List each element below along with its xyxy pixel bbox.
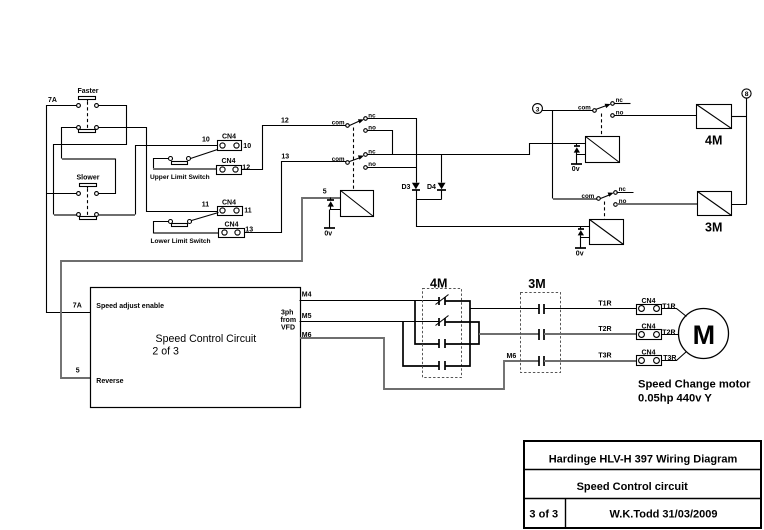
svg-text:CN4: CN4 [222,158,236,165]
svg-text:com: com [332,156,345,163]
wire: 7A rail (Faster NO left, Slower NO left, box 7A input) [47,106,91,313]
svg-text:T3R: T3R [663,355,676,362]
diode flyback across 3M-pilot coil [581,227,590,238]
wire 13: CN4 pin13 to relay com (lower) [245,162,346,233]
svg-text:0v: 0v [572,166,580,173]
svg-text:M5: M5 [302,313,312,320]
wire: CN4 T2R to motor [662,334,679,336]
pushbutton Faster NO contact circles [77,104,81,108]
wire: net 5 from coil to Reverse input of speed control box [61,198,340,378]
svg-text:2 of 3: 2 of 3 [152,346,179,358]
relay 3M-pilot changeover: nc circle, stub, label [614,191,618,195]
svg-text:Hardinge HLV-H 397 Wiring Diag: Hardinge HLV-H 397 Wiring Diagram [549,453,738,465]
ground 0v for RL5 [329,210,331,228]
motor M body [679,309,729,359]
relay 4M-pilot mechanical link (dashed) [601,114,603,137]
contactor 4M NC contact 2 [439,318,445,326]
connector CN4 pin10 body [218,141,242,151]
relay 3M-pilot mechanical link (dashed) [604,202,606,220]
contactor 4M NC contact 1 [439,297,445,305]
contactor 3M NO contact 2 [539,329,544,340]
wire: drop to Slower NO right [99,159,116,194]
wire: CN4 T3R to motor [662,352,687,361]
relay 4M-pilot changeover: no circle and label [611,114,615,118]
relay RL5 changeover contact 12: com circle [346,124,350,128]
wire: no to contactor coil 4M [615,115,697,117]
svg-text:CN4: CN4 [222,199,236,206]
relay RL5 changeover contact 12: nc circle and label [364,117,368,121]
svg-text:4M: 4M [705,134,722,148]
connector CN4 pin T1R body [637,305,662,315]
connector CN4 pin T3R body [637,356,662,366]
contactor 4M NO contact 3 [439,339,445,348]
diode flyback across 4M-pilot coil [577,144,586,155]
diode flyback across RL5 coil [331,198,341,210]
svg-text:0v: 0v [324,230,332,237]
wire: Slower NC left horizontal [54,214,77,216]
pushbutton Slower NO contact circles [77,192,81,196]
svg-text:Speed Control Circuit: Speed Control Circuit [156,333,257,345]
title block outer frame [524,441,761,528]
relay 3M-pilot changeover: arm + arrowhead [601,195,611,199]
svg-text:3 of 3: 3 of 3 [529,509,558,521]
wire: T2R from 4M to 3M contact 2 (grey) [479,333,539,335]
svg-text:3M: 3M [528,277,545,291]
relay 4M-pilot changeover: nc circle, stub, label [611,102,615,106]
relay RL5 changeover contact 12: no circle and label [364,129,368,133]
wire: D4 branch from nc(13) net [441,155,443,183]
node terminal 8 [742,89,751,98]
relay coil 3M-pilot body [590,220,624,245]
wire: upper limit left lead [154,159,169,169]
svg-text:11: 11 [244,208,252,215]
svg-text:D3: D3 [402,184,411,191]
svg-text:7A: 7A [73,302,82,309]
wire: upper limit right diagonal to CN4 pin10 [191,150,218,159]
svg-text:M: M [693,320,716,350]
svg-text:T2R: T2R [662,329,675,336]
wire: 4M output join NC1+NO4 (T1R side) [445,301,470,366]
connector CN4 pin11 body [218,207,243,216]
svg-text:Speed adjust enable: Speed adjust enable [96,303,164,310]
svg-text:11: 11 [202,202,210,209]
svg-text:W.K.Todd 31/03/2009: W.K.Todd 31/03/2009 [609,509,717,521]
svg-text:Speed Control circuit: Speed Control circuit [577,481,689,493]
svg-text:CN4: CN4 [222,134,236,141]
svg-text:12: 12 [281,117,289,124]
title block cell divider [565,499,567,529]
wire: lower limit to CN4 pin13 (grey) [154,232,219,234]
svg-text:VFD: VFD [281,324,295,331]
wire: T3R from 3M to connector CN4 (grey) [544,360,636,362]
wire: 4M coil to terminal 8 rail [732,116,747,118]
switch Lower Limit: contact circles [169,220,173,224]
svg-text:Reverse: Reverse [96,378,123,385]
svg-text:3M: 3M [705,221,722,235]
svg-text:8: 8 [745,91,749,98]
wire: CN4 T1R to motor [662,309,687,317]
wire: no to contactor coil 3M (grey) [617,203,698,205]
wire: lower limit right diagonal to CN4 pin11 [192,213,219,221]
wire: upper limit to CN4 pin12 (grey) [153,168,217,170]
wire: T1R from 4M to 3M contact 1 [471,308,539,310]
svg-text:nc: nc [619,186,627,193]
wire M4: box to 4M NC contact 1 [300,300,439,302]
wire: terminal 8 rail [732,98,747,205]
relay RL5 changeover contact 13: moving arm + arrowhead [350,158,361,162]
wire: Faster NO right to Slower NC left [54,106,127,215]
svg-text:7A: 7A [48,97,57,104]
relay RL5 changeover contact 13: com circle [346,161,350,165]
relay 4M-pilot changeover: arm + arrowhead [596,106,607,110]
svg-text:CN4: CN4 [225,222,239,229]
svg-text:Faster: Faster [78,88,99,95]
contactor 4M contact block dashed outline [423,289,462,378]
svg-text:10: 10 [243,143,251,150]
connector CN4 pin12 body [217,166,242,175]
svg-text:3ph: 3ph [281,310,293,317]
svg-text:Speed Change motor: Speed Change motor [638,379,751,391]
svg-text:T3R: T3R [598,352,611,359]
pushbutton Slower mechanical link (dashed) [87,187,89,189]
wire: T1R from 3M to connector CN4 [545,308,637,310]
svg-text:nc: nc [616,97,624,104]
relay 3M-pilot changeover: no circle and label [614,203,618,207]
svg-text:0v: 0v [576,251,584,258]
wire 12: CN4 pin12 to relay com (upper) [242,126,346,170]
svg-text:M6: M6 [507,353,517,360]
svg-text:from: from [281,317,297,324]
svg-text:com: com [578,104,591,111]
pushbutton Faster actuator bar [79,97,96,100]
switch Upper Limit: contact circles [169,157,173,161]
svg-text:5: 5 [323,189,327,196]
svg-text:com: com [332,120,345,127]
svg-text:12: 12 [242,165,250,172]
svg-text:13: 13 [281,153,289,160]
diode D4 [438,183,446,190]
pushbutton Faster mechanical link (dashed) [87,100,89,102]
svg-text:3: 3 [536,106,540,113]
pushbutton Slower NC contact circles [77,213,81,217]
wire M6: box to 3M contact 3 (grey) [300,338,539,389]
contactor 3M contact block dashed outline [521,293,561,373]
node terminal 3 [533,104,543,114]
wire: nc(12) to diode D3 anode [368,119,417,183]
wire: Faster NC left down [62,128,77,159]
pushbutton Slower actuator bar [80,184,97,187]
relay RL5 changeover contact 13: no circle and label [364,166,368,170]
wire: diode net down and across to relay coil 3M-pilot [417,200,590,227]
contactor 3M NO contact 3 [539,356,544,366]
svg-text:Lower Limit Switch: Lower Limit Switch [151,238,211,245]
svg-text:M4: M4 [302,292,312,299]
wire: Slower NC right up to CN4 pin 10 (net 10) [99,214,135,216]
svg-text:T1R: T1R [598,301,611,308]
wire: no(13) to D3 branch [368,167,417,169]
block U1 Speed Control Circuit box [91,288,301,408]
connector CN4 pin13 body [219,229,245,238]
wire M5 branch to 4M NO contact 4 [403,322,439,366]
svg-text:10: 10 [202,137,210,144]
relay coil 4M-pilot body [586,137,620,163]
relay RL5 changeover contact 13: nc circle and label [364,153,368,157]
contactor 3M NO contact 1 [539,304,544,314]
svg-text:T2R: T2R [598,326,611,333]
svg-text:5: 5 [76,368,80,375]
title block row separators [525,470,762,499]
svg-text:D4: D4 [427,184,436,191]
wire M4 branch to 4M NO contact 3 [415,301,439,344]
wire: 4M output join NC2+NO3 (T2R side) [445,322,479,344]
wire: lower limit left lead [154,222,169,234]
relay coil RL5 body [341,191,374,217]
wire M5: box to 4M NC contact 2 [300,321,439,323]
switch Lower Limit: bridge bar [172,224,188,227]
contactor coil 4M body [697,105,732,129]
wire: T2R from 3M to connector CN4 (grey) [544,333,636,335]
wire: no(12) drop to nc(13) net [368,131,393,155]
relay RL5 changeover contact 12: moving arm + arrowhead [350,121,361,126]
ground 0v for 3M-pilot [580,238,582,249]
wire: cross link to Slower NO right (grey) [62,158,115,160]
switch Upper Limit: bridge bar [172,162,188,165]
wire: Faster NC right to CN4 pin 11 [99,128,218,212]
wire: nc(13) net with jog to relay coil 4M-pilot [368,144,586,155]
pushbutton Slower NC bridge bar [80,217,97,220]
svg-text:Upper Limit Switch: Upper Limit Switch [150,174,210,181]
svg-text:com: com [582,193,595,200]
pushbutton Faster NC contact circles [77,126,81,130]
wire: terminal 3 to com contacts [543,111,593,199]
contactor coil 3M body [698,192,732,216]
ground 0v for 4M-pilot [576,155,578,164]
contactor 4M NO contact 4 [439,361,445,370]
connector CN4 pin T2R body [637,330,662,340]
relay RL5 mechanical link (dashed) [353,128,355,191]
svg-text:Slower: Slower [77,175,100,182]
pushbutton Faster NC bridge bar [79,130,96,133]
wire: D3/D4 cathode join [417,190,442,200]
svg-text:0.05hp 440v Y: 0.05hp 440v Y [638,392,712,404]
svg-text:T1R: T1R [662,304,675,311]
diode D3 [412,183,420,190]
